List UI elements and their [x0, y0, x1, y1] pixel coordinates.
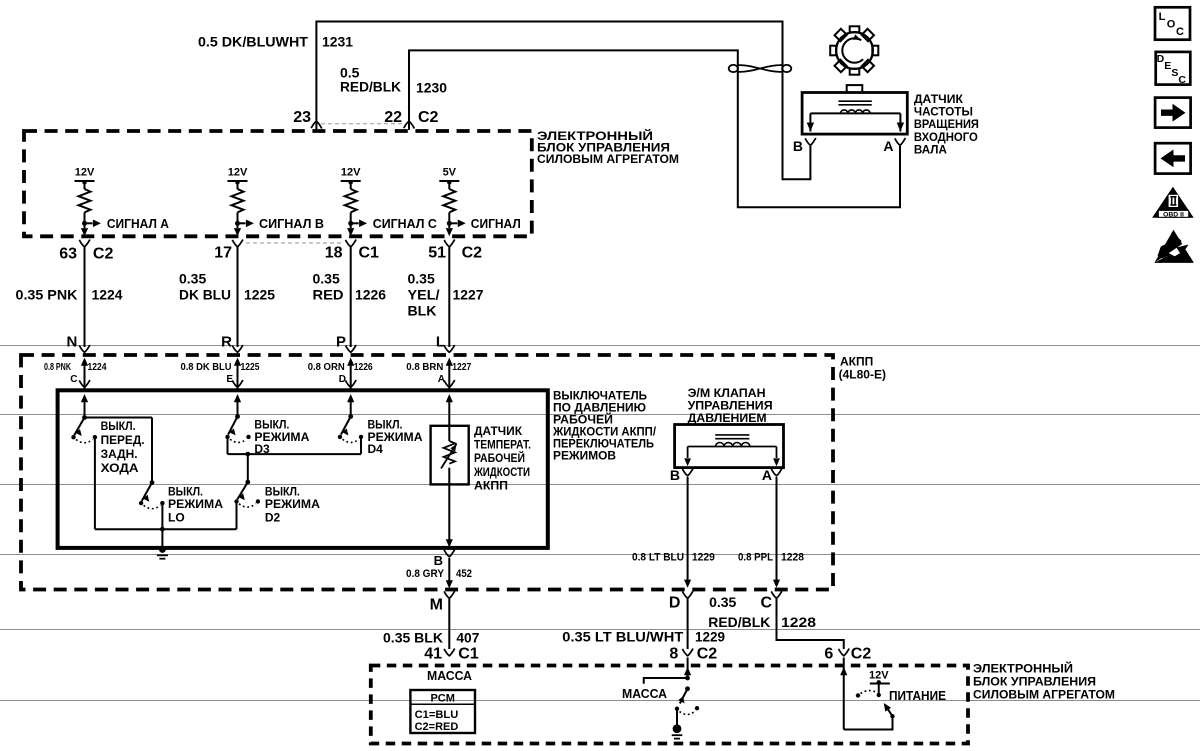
svg-text:O: O [1167, 19, 1176, 31]
svg-text:E: E [1164, 60, 1171, 72]
svg-text:МАССА: МАССА [622, 687, 667, 701]
svg-text:ВРАЩЕНИЯ: ВРАЩЕНИЯ [914, 119, 979, 131]
svg-text:0.35: 0.35 [179, 271, 206, 287]
svg-text:23: 23 [293, 109, 311, 126]
svg-text:0.35: 0.35 [408, 271, 435, 287]
svg-text:РЕЖИМОВ: РЕЖИМОВ [553, 449, 616, 463]
svg-text:0.8 ORN: 0.8 ORN [308, 362, 345, 373]
svg-text:1231: 1231 [322, 34, 353, 50]
svg-text:D3: D3 [254, 442, 270, 456]
svg-text:0.35 BLK: 0.35 BLK [383, 630, 443, 646]
svg-text:СИЛОВЫМ АГРЕГАТОМ: СИЛОВЫМ АГРЕГАТОМ [537, 152, 679, 166]
svg-text:N: N [67, 334, 78, 351]
svg-text:0.35 PNK: 0.35 PNK [16, 287, 78, 303]
svg-text:0.8 PNK: 0.8 PNK [44, 362, 72, 373]
svg-text:РЕЖИМА: РЕЖИМА [168, 497, 223, 511]
svg-text:ДАТЧИК: ДАТЧИК [914, 94, 964, 106]
svg-text:A: A [883, 138, 893, 154]
svg-text:C: C [70, 374, 77, 385]
svg-text:B: B [434, 553, 443, 568]
svg-text:СИГНАЛ: СИГНАЛ [471, 217, 521, 231]
svg-text:8: 8 [669, 646, 678, 663]
svg-text:5V: 5V [443, 167, 457, 179]
svg-text:1228: 1228 [781, 552, 804, 564]
svg-text:1227: 1227 [452, 362, 471, 373]
svg-text:1224: 1224 [88, 362, 107, 373]
svg-text:РЕЖИМА: РЕЖИМА [265, 497, 320, 511]
svg-text:C2: C2 [462, 244, 483, 261]
svg-text:12V: 12V [869, 670, 889, 682]
svg-text:407: 407 [456, 630, 479, 646]
svg-text:0.5 DK/BLUWHT: 0.5 DK/BLUWHT [198, 34, 308, 50]
svg-text:C2=RED: C2=RED [415, 721, 459, 733]
svg-text:1226: 1226 [354, 362, 373, 373]
svg-text:452: 452 [456, 568, 472, 580]
svg-text:R: R [221, 334, 232, 351]
svg-text:OBD II: OBD II [1163, 211, 1184, 218]
svg-text:ДАВЛЕНИЕМ: ДАВЛЕНИЕМ [688, 411, 767, 425]
svg-text:АКПП: АКПП [840, 355, 873, 369]
svg-text:C2: C2 [697, 646, 718, 663]
svg-text:(4L80-E): (4L80-E) [839, 368, 886, 382]
svg-text:ВХОДНОГО: ВХОДНОГО [914, 132, 978, 144]
svg-text:D4: D4 [368, 442, 384, 456]
svg-text:ВЫКЛ.: ВЫКЛ. [101, 419, 136, 433]
svg-text:C1: C1 [458, 646, 479, 663]
svg-text:C: C [760, 595, 772, 612]
svg-text:63: 63 [59, 246, 77, 263]
svg-text:51: 51 [428, 244, 446, 261]
svg-text:0.8 LT BLU: 0.8 LT BLU [632, 552, 684, 564]
svg-text:BLK: BLK [408, 303, 437, 319]
svg-text:D2: D2 [265, 511, 281, 525]
svg-text:0.35: 0.35 [709, 594, 736, 610]
svg-text:ХОДА: ХОДА [101, 461, 139, 475]
svg-text:1224: 1224 [92, 287, 123, 303]
svg-text:ЭЛЕКТРОННЫЙ: ЭЛЕКТРОННЫЙ [973, 661, 1073, 676]
svg-text:A: A [438, 374, 445, 385]
svg-text:АКПП: АКПП [474, 479, 508, 493]
svg-text:СИГНАЛ C: СИГНАЛ C [373, 217, 437, 231]
svg-text:РАБОЧЕЙ: РАБОЧЕЙ [474, 450, 525, 465]
svg-text:P: P [336, 334, 346, 351]
svg-text:6: 6 [824, 646, 833, 663]
svg-text:B: B [670, 467, 680, 483]
svg-text:E: E [226, 374, 233, 385]
svg-text:СИЛОВЫМ АГРЕГАТОМ: СИЛОВЫМ АГРЕГАТОМ [973, 688, 1115, 702]
svg-text:БЛОК УПРАВЛЕНИЯ: БЛОК УПРАВЛЕНИЯ [973, 675, 1096, 689]
svg-text:18: 18 [325, 244, 343, 261]
svg-text:D: D [339, 374, 346, 385]
svg-text:L: L [1159, 11, 1166, 23]
svg-text:1227: 1227 [453, 287, 484, 303]
svg-text:1229: 1229 [695, 629, 725, 645]
svg-text:M: M [430, 597, 443, 614]
svg-text:МАССА: МАССА [427, 669, 472, 683]
svg-text:C2: C2 [418, 109, 439, 126]
svg-text:0.8 BRN: 0.8 BRN [406, 362, 443, 373]
svg-text:0.8 GRY: 0.8 GRY [406, 568, 445, 580]
svg-text:RED/BLK: RED/BLK [340, 79, 401, 95]
svg-text:PCM: PCM [430, 693, 454, 705]
svg-text:ЧАСТОТЫ: ЧАСТОТЫ [914, 107, 973, 119]
svg-text:0.8 DK BLU: 0.8 DK BLU [181, 362, 232, 373]
svg-text:ПИТАНИЕ: ПИТАНИЕ [889, 689, 946, 703]
svg-text:СИГНАЛ B: СИГНАЛ B [259, 217, 324, 231]
svg-text:A: A [762, 467, 772, 483]
svg-text:C: C [1178, 74, 1186, 86]
svg-text:0.35 LT BLU/WHT: 0.35 LT BLU/WHT [562, 629, 683, 645]
svg-text:41: 41 [424, 646, 442, 663]
svg-text:C1: C1 [359, 244, 380, 261]
svg-text:12V: 12V [75, 167, 95, 179]
svg-text:1225: 1225 [244, 287, 275, 303]
svg-text:22: 22 [384, 109, 402, 126]
svg-text:1225: 1225 [241, 362, 260, 373]
svg-text:LO: LO [168, 511, 185, 525]
svg-text:C: C [1176, 26, 1184, 38]
svg-text:D: D [669, 595, 681, 612]
svg-text:YEL/: YEL/ [408, 287, 440, 303]
svg-text:C2: C2 [93, 246, 114, 263]
svg-text:RED: RED [313, 287, 344, 303]
svg-text:17: 17 [214, 244, 232, 261]
svg-text:СИГНАЛ А: СИГНАЛ А [107, 217, 169, 231]
svg-text:12V: 12V [228, 167, 248, 179]
svg-text:ПЕРЕД.: ПЕРЕД. [101, 433, 145, 447]
svg-text:ЖИДКОСТИ: ЖИДКОСТИ [473, 465, 530, 479]
svg-text:1229: 1229 [692, 552, 715, 564]
svg-text:ВАЛА: ВАЛА [914, 144, 947, 156]
svg-text:S: S [1171, 67, 1178, 79]
svg-text:DK BLU: DK BLU [179, 287, 231, 303]
svg-text:C1=BLU: C1=BLU [415, 709, 459, 721]
svg-text:L: L [436, 334, 445, 351]
svg-text:B: B [793, 138, 803, 154]
svg-text:0.8 PPL: 0.8 PPL [738, 552, 773, 564]
svg-text:1226: 1226 [355, 287, 386, 303]
svg-text:ДАТЧИК: ДАТЧИК [474, 424, 523, 438]
svg-text:1230: 1230 [416, 79, 447, 95]
svg-text:ЗАДН.: ЗАДН. [101, 447, 138, 461]
svg-text:1228: 1228 [781, 614, 816, 630]
svg-text:ТЕМПЕРАТ.: ТЕМПЕРАТ. [474, 438, 531, 452]
svg-text:0.35: 0.35 [313, 271, 340, 287]
svg-text:C2: C2 [851, 646, 872, 663]
svg-text:12V: 12V [341, 167, 361, 179]
